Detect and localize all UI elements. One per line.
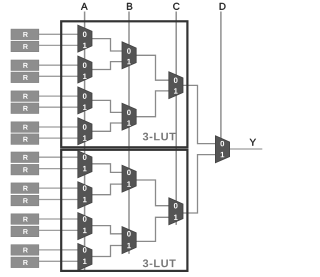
wire U1 stage1 mux 2 output to stage2 [92, 62, 122, 70]
3-LUT label U2 [143, 259, 176, 267]
3-LUT block U1 border [61, 21, 187, 147]
mux U1A2 (stage1) [78, 56, 92, 83]
wire U2 stage2 mux 2 output to stage3 [136, 217, 169, 241]
register R13 [11, 214, 39, 225]
net A select line [84, 12, 86, 271]
register R4 label [23, 75, 28, 80]
wire R16 to U2 stage1 mux 4 input 1 [39, 260, 78, 262]
wire R11 to U2 stage1 mux 2 input 0 [39, 187, 78, 189]
register R15 [11, 245, 39, 256]
net D label [220, 3, 226, 10]
wire U2 3-LUT output to final mux input 1 [183, 155, 215, 213]
mux U3 (output stage) [215, 136, 229, 163]
mux U1B2 pin labels 0/1 [127, 110, 131, 126]
mux U1B1 (stage2) [122, 42, 136, 69]
mux U3 pin labels 0/1 [220, 141, 224, 157]
register R8 label [23, 137, 28, 142]
wire U1 stage2 mux 2 output to stage3 [136, 91, 169, 117]
3-LUT block U2 border [61, 150, 187, 271]
mux U2A1 pin labels 0/1 [83, 154, 87, 171]
wire R6 to U1 stage1 mux 3 input 1 [39, 106, 78, 108]
register R12 [11, 195, 39, 206]
register R9 [11, 152, 39, 163]
register R7 [11, 122, 39, 133]
register R14 [11, 226, 39, 237]
mux U1C1 pin labels 0/1 [174, 77, 178, 93]
wire R14 to U2 stage1 mux 3 input 1 [39, 229, 78, 231]
wire U1 3-LUT output to final mux input 0 [183, 85, 215, 143]
register R2 label [23, 44, 28, 49]
net B select line [128, 12, 130, 254]
net C select line [175, 12, 177, 225]
mux U1A2 pin labels 0/1 [83, 62, 87, 79]
wire R13 to U2 stage1 mux 3 input 0 [39, 218, 78, 220]
mux U1B1 pin labels 0/1 [127, 48, 131, 64]
wire R2 to U1 stage1 mux 1 input 1 [39, 44, 78, 46]
3-LUT label U1 [143, 133, 176, 141]
wire R4 to U1 stage1 mux 2 input 1 [39, 75, 78, 77]
register R8 [11, 134, 39, 145]
register R7 label [23, 125, 28, 130]
wire R15 to U2 stage1 mux 4 input 0 [39, 249, 78, 251]
register R3 [11, 60, 39, 71]
register R14 label [23, 229, 28, 234]
register R10 label [23, 167, 28, 172]
register R6 [11, 103, 39, 114]
mux U2A2 (stage1) [78, 182, 92, 209]
mux U2C1 pin labels 0/1 [174, 203, 178, 220]
wire R8 to U1 stage1 mux 4 input 1 [39, 137, 78, 139]
mux U2C1 (stage3) [169, 198, 183, 225]
net B label [127, 3, 132, 10]
net A label [81, 3, 88, 10]
mux U1A1 pin labels 0/1 [83, 32, 87, 49]
wire R10 to U2 stage1 mux 1 input 1 [39, 168, 78, 170]
mux U2A1 (stage1) [78, 151, 92, 178]
wire R1 to U1 stage1 mux 1 input 0 [39, 33, 78, 35]
mux U1B2 (stage2) [122, 103, 136, 130]
wire R3 to U1 stage1 mux 2 input 0 [39, 64, 78, 66]
register R4 [11, 72, 39, 83]
mux U1A3 (stage1) [78, 87, 92, 114]
register R12 label [23, 198, 28, 203]
wire U1 stage2 mux 1 output to stage3 [136, 55, 169, 80]
mux U2A2 pin labels 0/1 [83, 185, 87, 202]
net D select line [220, 12, 222, 140]
wire U2 stage1 mux 2 output to stage2 [92, 184, 122, 195]
register R1 [11, 29, 39, 39]
wire R12 to U2 stage1 mux 2 input 1 [39, 199, 78, 201]
wire U2 stage2 mux 1 output to stage3 [136, 180, 169, 206]
wire R9 to U2 stage1 mux 1 input 0 [39, 156, 78, 158]
register R15 label [23, 248, 28, 253]
mux U1A4 (stage1) [78, 118, 92, 145]
mux U2A4 (stage1) [78, 244, 92, 271]
mux U2A3 (stage1) [78, 213, 92, 240]
mux U2A3 pin labels 0/1 [83, 216, 87, 233]
wire U2 stage1 mux 4 output to stage2 [92, 246, 122, 257]
net Y label [250, 139, 256, 146]
wire U1 stage1 mux 1 output to stage2 [92, 39, 122, 51]
register R9 label [23, 155, 28, 160]
register R16 [11, 257, 39, 268]
wire U1 stage1 mux 4 output to stage2 [92, 123, 122, 131]
register R11 [11, 183, 39, 194]
mux U1A4 pin labels 0/1 [83, 124, 87, 141]
net C label [173, 3, 179, 10]
register R11 label [23, 186, 28, 191]
register R5 label [23, 94, 28, 99]
register R3 label [23, 63, 28, 68]
register R5 [11, 91, 39, 102]
mux U1C1 (stage3) [169, 72, 183, 99]
wire R7 to U1 stage1 mux 4 input 0 [39, 126, 78, 128]
wire U2 stage1 mux 1 output to stage2 [92, 164, 122, 173]
register R13 label [23, 217, 28, 222]
register R1 label [23, 32, 28, 37]
register R6 label [23, 106, 28, 111]
mux U1A1 (stage1) [78, 25, 92, 52]
wire R5 to U1 stage1 mux 3 input 0 [39, 95, 78, 97]
mux U2A4 pin labels 0/1 [83, 247, 87, 264]
wire Y output [230, 148, 263, 150]
wire U1 stage1 mux 3 output to stage2 [92, 100, 122, 112]
mux U1A3 pin labels 0/1 [83, 93, 87, 110]
register R16 label [23, 260, 28, 265]
mux U2B1 (stage2) [122, 165, 136, 192]
register R10 [11, 164, 39, 175]
wire U2 stage1 mux 3 output to stage2 [92, 226, 122, 234]
mux U2B1 pin labels 0/1 [127, 170, 131, 187]
mux U2B2 pin labels 0/1 [127, 231, 131, 248]
register R2 [11, 41, 39, 52]
mux U2B2 (stage2) [122, 227, 136, 254]
